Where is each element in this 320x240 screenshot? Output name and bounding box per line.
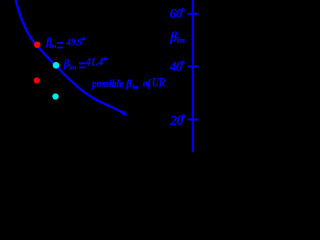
red dot 2: [34, 77, 40, 83]
label 1 degree sign: [82, 38, 84, 40]
svg-text:im: im: [49, 44, 56, 50]
label 2 equals top bar: [79, 62, 85, 64]
curve of beta_im versus drop parameter: [16, 0, 124, 113]
svg-text:49.9: 49.9: [66, 36, 83, 48]
axis tick at 20 degrees: [188, 119, 199, 121]
curve end arrowhead: [121, 110, 127, 115]
svg-text:60: 60: [170, 6, 183, 21]
degree sign of 20: [182, 115, 185, 118]
label 2 degree sign: [104, 58, 106, 60]
cyan dot 1: [53, 62, 60, 69]
right axis line: [192, 0, 194, 152]
axis tick at 60 degrees: [188, 13, 199, 15]
label 2 equals bottom bar: [79, 67, 85, 69]
svg-text:im: im: [177, 36, 185, 45]
svg-text:im: im: [132, 85, 139, 91]
cyan dot 2: [52, 93, 58, 99]
svg-text:im: im: [69, 65, 77, 71]
svg-text:UR: UR: [152, 76, 166, 90]
svg-text:β: β: [125, 78, 132, 90]
red dot 1: [34, 42, 40, 48]
degree sign of 60: [182, 8, 185, 11]
label 1 equals bottom bar: [57, 47, 63, 49]
svg-text:41.4: 41.4: [85, 56, 104, 68]
degree sign of 40: [182, 61, 185, 64]
label 1 equals top bar: [57, 42, 63, 44]
svg-text:possible: possible: [91, 79, 124, 90]
axis tick at 40 degrees: [188, 66, 199, 68]
svg-text:of: of: [143, 79, 152, 90]
svg-text:20: 20: [169, 113, 183, 128]
svg-text:40: 40: [169, 59, 183, 74]
